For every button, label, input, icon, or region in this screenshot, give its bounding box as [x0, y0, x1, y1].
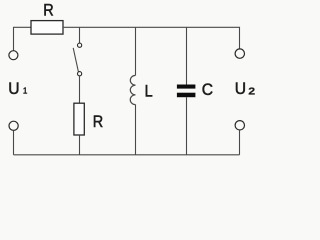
switch S arm (open blade): [73, 48, 78, 72]
label U2: [235, 80, 255, 98]
terminal U2- (bottom-right circle): [235, 121, 244, 130]
terminal U2+ (top-right circle): [235, 49, 244, 58]
switch S contact (upper circle): [78, 43, 82, 47]
wire: left output bottom lead to bottom rail: [13, 131, 15, 155]
resistor R (series, horizontal box): [31, 21, 63, 34]
svg-text:1: 1: [23, 85, 28, 95]
terminal U1- (bottom-left circle): [9, 121, 18, 130]
svg-text:U: U: [8, 80, 19, 98]
resistor R (shunt, vertical box): [74, 103, 84, 135]
wire: bottom rail: [14, 154, 240, 156]
wire: top rail from R to right corner, down to terminal U2+: [63, 27, 240, 49]
svg-text:R: R: [93, 113, 103, 131]
wire: shunt resistor to bottom rail: [79, 135, 81, 155]
wire: switch to shunt resistor: [79, 76, 81, 103]
wire: capacitor lower lead: [186, 97, 188, 155]
capacitor C bottom plate: [177, 93, 196, 98]
inductor L (coil, 3 left humps): [130, 75, 135, 104]
label U1: [8, 80, 27, 98]
switch S contact (lower circle): [78, 72, 82, 76]
svg-text:U: U: [235, 80, 246, 98]
terminal U1+ (top-left circle): [9, 51, 18, 60]
wire: inductor lower lead: [135, 105, 137, 155]
wire: capacitor branch upper lead: [186, 27, 188, 84]
capacitor C top plate: [177, 85, 196, 89]
svg-text:R: R: [43, 1, 53, 19]
svg-text:L: L: [145, 82, 153, 100]
wire: inductor branch upper lead: [135, 27, 137, 75]
wire: switch branch stub from top rail: [79, 27, 81, 43]
wire: left input top lead (terminal U1+ up to top rail): [14, 27, 32, 50]
wire: right terminal to bottom rail: [239, 130, 241, 155]
svg-text:C: C: [202, 81, 213, 100]
svg-text:2: 2: [248, 86, 255, 97]
